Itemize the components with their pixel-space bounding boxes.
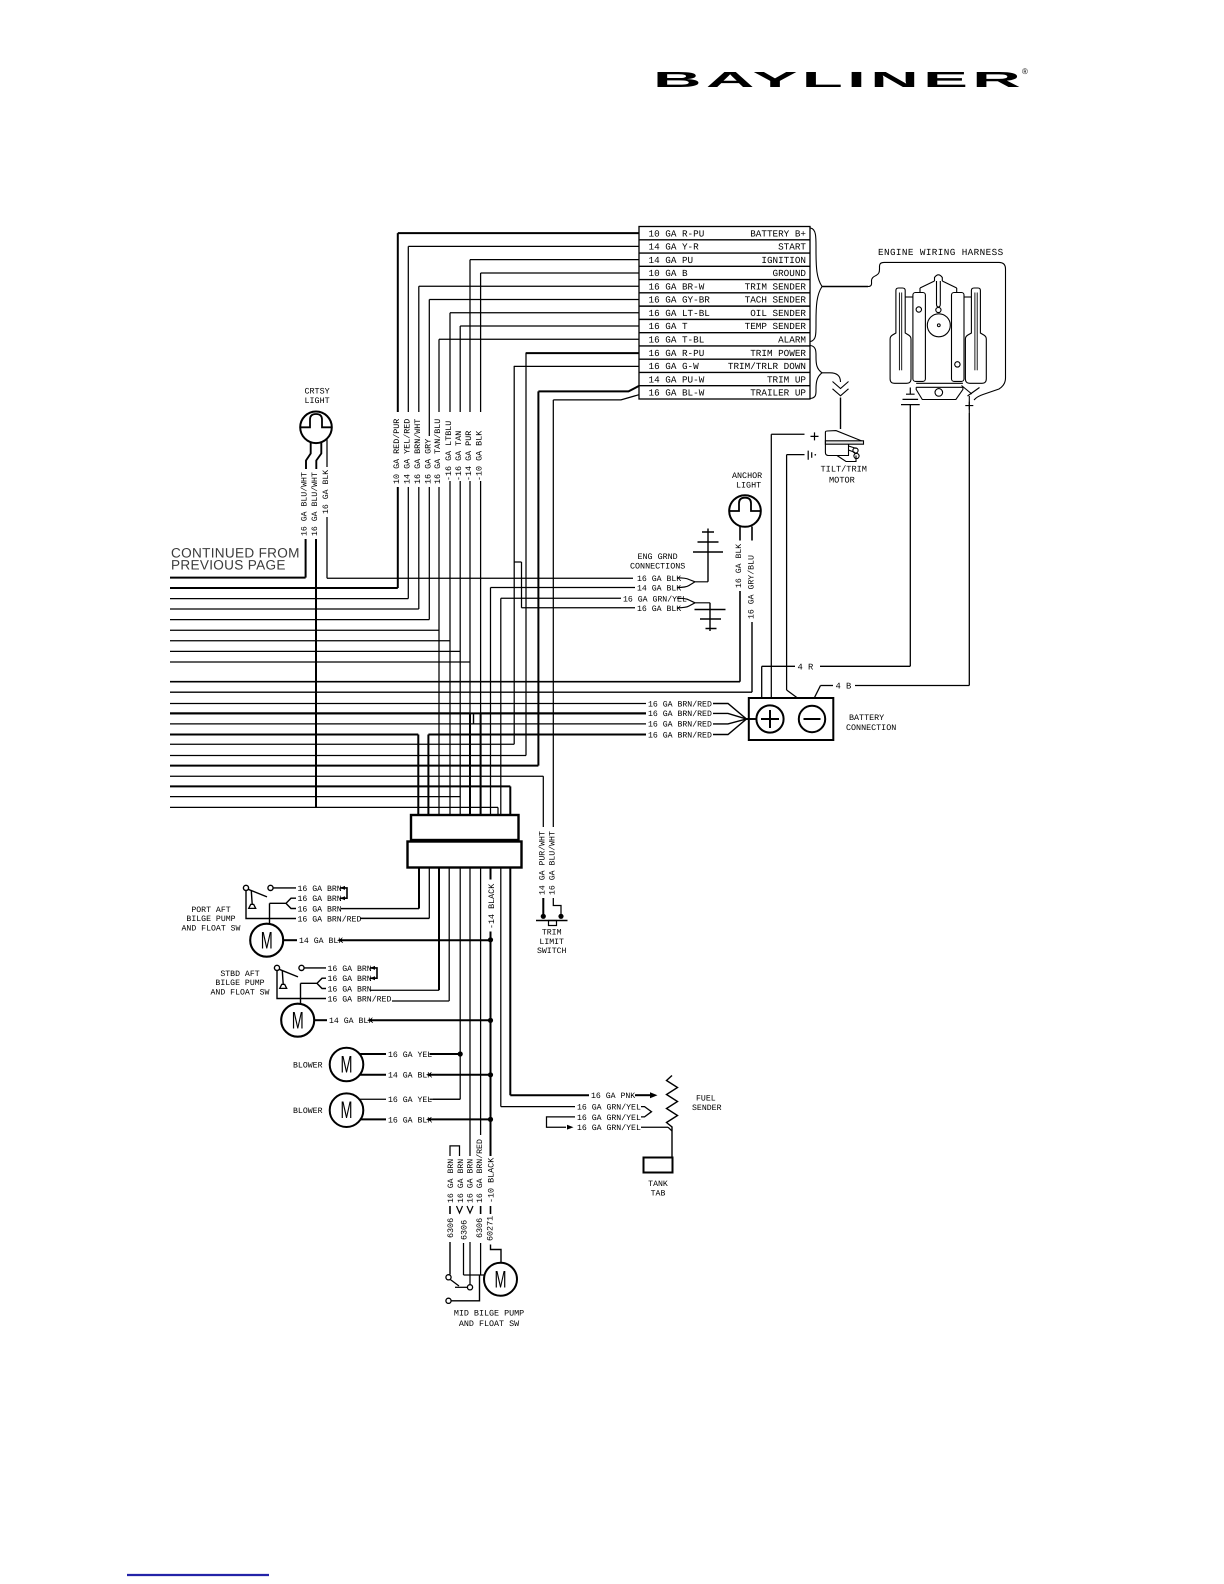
footer blue rule <box>127 1574 269 1576</box>
wire mid brn/red <box>480 1243 482 1275</box>
wire mid float mid terminal <box>469 1242 471 1285</box>
wire mid motor feed <box>463 1243 465 1275</box>
wire 16 GA TAN (table col x=460.2) <box>460 325 639 327</box>
wire blower2 16 GA BLK <box>360 1118 386 1120</box>
bus wire trim power (row10) <box>170 755 526 757</box>
wire 14 GA YEL/RED (table col x=408.3) <box>408 245 639 247</box>
arrowheads port rows 1-2 <box>340 886 345 900</box>
svg-text:LIGHT: LIGHT <box>305 396 330 406</box>
svg-text:16 GA GRN/YEL: 16 GA GRN/YEL <box>577 1124 641 1133</box>
svg-text:FUEL: FUEL <box>696 1095 716 1104</box>
wire engine plus to 4B <box>968 413 970 686</box>
svg-text:14 GA PU: 14 GA PU <box>649 255 694 266</box>
svg-text:16 GA BRN: 16 GA BRN <box>457 1159 466 1203</box>
svg-text:TANK: TANK <box>648 1180 668 1189</box>
svg-text:M: M <box>341 1097 353 1124</box>
stbd aft float switch and motor <box>274 965 279 970</box>
wire tilt/trim minus to battery minus <box>787 454 805 456</box>
svg-text:14 GA BLK: 14 GA BLK <box>637 585 681 594</box>
wire crtsy leg B to bus <box>315 539 317 807</box>
svg-text:16 GA T: 16 GA T <box>649 321 688 332</box>
engine harness entry funnel <box>868 269 880 287</box>
wire 14 GA PUR (table col x=470.0) <box>470 259 639 261</box>
svg-text:MOTOR: MOTOR <box>829 476 855 486</box>
svg-text:16 GA BRN: 16 GA BRN <box>328 985 372 994</box>
svg-text:60271: 60271 <box>485 1216 495 1241</box>
wire blower1 14 GA BLK <box>360 1074 386 1076</box>
svg-text:-16 GA TAN: -16 GA TAN <box>454 431 464 481</box>
trim limit switch bar <box>536 920 568 922</box>
ground symbol 2 (tip down) <box>695 603 726 631</box>
svg-text:16 GA BRN: 16 GA BRN <box>298 895 342 904</box>
svg-text:14 GA Y-R: 14 GA Y-R <box>649 242 700 253</box>
svg-text:ALARM: ALARM <box>778 334 806 345</box>
wire 16 GA BL-W trailer up (row13) <box>553 395 639 400</box>
stub wire x473.5 <box>473 714 475 724</box>
svg-text:16 GA BRN/RED: 16 GA BRN/RED <box>648 700 712 709</box>
bus wire trim/trlr down (row11) <box>170 743 514 745</box>
bus wire blower yel <box>170 796 460 798</box>
wire row C to resistor <box>641 1126 668 1128</box>
wire tilt/trim plus to battery plus <box>771 433 804 435</box>
inline connector lower half <box>408 842 522 868</box>
tilt/trim plus terminal <box>811 432 819 440</box>
wire engine ground to 4R <box>909 405 911 667</box>
bracket mid pump feed split <box>450 1146 460 1156</box>
ground symbol 1 (tip up) <box>693 529 723 582</box>
svg-text:TRIM UP: TRIM UP <box>767 374 806 385</box>
svg-text:16 GA BRN: 16 GA BRN <box>328 965 372 974</box>
wire stbd pump brn (x439) <box>438 868 440 991</box>
svg-text:M: M <box>495 1266 507 1293</box>
svg-text:16 GA BRN/RED: 16 GA BRN/RED <box>298 915 362 924</box>
engine Y wires to + terminal <box>962 386 980 414</box>
wire mid pump brn (x470) <box>469 868 471 1157</box>
svg-text:IGNITION: IGNITION <box>761 255 806 266</box>
port aft float switch and motor <box>243 885 248 890</box>
svg-text:16 GA BLU/WHT: 16 GA BLU/WHT <box>301 472 310 536</box>
svg-text:16 GA LT-BL: 16 GA LT-BL <box>649 308 710 319</box>
wire stbd pump brn/red (x449) <box>448 868 450 1002</box>
svg-text:16 GA BLK: 16 GA BLK <box>388 1116 432 1125</box>
svg-text:TRIM: TRIM <box>542 929 562 938</box>
svg-text:16 GA GY-BR: 16 GA GY-BR <box>649 295 711 306</box>
mid bilge motor <box>484 1263 517 1296</box>
svg-text:6306: 6306 <box>460 1220 470 1240</box>
wire mid float top terminal <box>449 1242 451 1275</box>
blower motor 2 <box>330 1093 364 1127</box>
wire 16 GA GRN/YEL row <box>501 597 621 599</box>
wire trim limit left lead <box>542 898 544 914</box>
svg-text:16 GA BR-W: 16 GA BR-W <box>649 281 705 292</box>
svg-text:16 GA BRN: 16 GA BRN <box>328 975 372 984</box>
svg-text:®: ® <box>1022 67 1028 76</box>
wire port row4 to connector <box>360 918 429 920</box>
wire port motor 14 GA BLK <box>283 939 297 941</box>
wire 16 GA R-PU trim power (row10) <box>526 352 639 354</box>
wire port pump brn (x419) <box>418 868 420 909</box>
svg-text:16 GA BRN/RED: 16 GA BRN/RED <box>648 721 712 730</box>
svg-text:14 GA YEL/RED: 14 GA YEL/RED <box>402 419 412 484</box>
svg-text:14 GA BLK: 14 GA BLK <box>329 1017 373 1026</box>
wire crtsy legs and fork <box>306 443 311 470</box>
svg-text:16 GA BRN: 16 GA BRN <box>298 905 342 914</box>
svg-text:6306: 6306 <box>446 1218 456 1238</box>
svg-text:16 GA BRN/WHT: 16 GA BRN/WHT <box>413 419 423 484</box>
svg-text:TAB: TAB <box>651 1189 666 1198</box>
svg-text:16 GA BLK: 16 GA BLK <box>735 544 744 588</box>
hook merge rows 1-2 to ground 1 <box>677 578 708 588</box>
engine + terminal <box>965 402 973 410</box>
svg-text:16 GA GRY/BLU: 16 GA GRY/BLU <box>747 555 756 619</box>
hook merge rows 3-4 to ground 2 <box>677 598 710 608</box>
wire 14 GA BLK row <box>491 587 636 589</box>
merge rows A-B <box>641 1107 652 1117</box>
wire blower2 16 GA YEL <box>360 1098 386 1100</box>
svg-text:16 GA GRN/YEL: 16 GA GRN/YEL <box>577 1104 641 1113</box>
svg-text:START: START <box>778 242 806 253</box>
svg-text:16 GA TAN/BLU: 16 GA TAN/BLU <box>433 419 443 484</box>
svg-text:AND FLOAT SW: AND FLOAT SW <box>182 924 241 933</box>
bracket port rows 1-2 <box>340 888 347 898</box>
svg-text:AND FLOAT SW: AND FLOAT SW <box>211 988 270 997</box>
bus wire y735 left segment <box>170 734 418 736</box>
junction dots on black bus <box>488 937 493 942</box>
bus wire brn/red row2 left <box>170 712 470 714</box>
svg-text:16 GA BLK: 16 GA BLK <box>322 470 331 514</box>
wire 16 GA G-W trim/trlr down (row11) <box>514 365 639 367</box>
svg-text:STBD AFT: STBD AFT <box>220 970 259 979</box>
bus wire brn/red row2 right <box>481 712 646 714</box>
wire grn/yel feed (x501) <box>500 868 502 1107</box>
wire trim limit pur/wht down <box>542 776 544 827</box>
tilt/trim minus terminal (battery symbol) <box>808 451 812 460</box>
wire arrow to tilt/trim motor <box>840 398 842 430</box>
wire 16 GA BRN/WHT (table col x=418.8) <box>419 285 639 287</box>
svg-text:BAYLINER: BAYLINER <box>653 67 1025 92</box>
svg-text:BATTERY B+: BATTERY B+ <box>750 228 806 239</box>
svg-text:16 GA BL-W: 16 GA BL-W <box>649 388 705 399</box>
svg-text:BLOWER: BLOWER <box>293 1061 323 1070</box>
svg-text:16 GA R-PU: 16 GA R-PU <box>649 348 705 359</box>
svg-text:16 GA GRN/YEL: 16 GA GRN/YEL <box>577 1114 641 1123</box>
battery minus terminal <box>799 706 825 732</box>
svg-text:GROUND: GROUND <box>773 268 807 279</box>
svg-text:16 GA BRN: 16 GA BRN <box>298 885 342 894</box>
Bayliner logo <box>653 67 1028 92</box>
arrowheads stbd rows 1-2 <box>370 966 375 980</box>
svg-text:16 GA G-W: 16 GA G-W <box>649 361 700 372</box>
svg-text:16 GA GRN/YEL: 16 GA GRN/YEL <box>623 596 687 605</box>
bracket stbd rows 1-2 <box>370 968 377 978</box>
fuel sender resistor zigzag <box>667 1076 678 1132</box>
wire resistor to tank tab <box>671 1131 673 1158</box>
wire anchor legs <box>739 527 741 541</box>
mid float blade <box>450 1280 459 1287</box>
svg-text:OIL SENDER: OIL SENDER <box>750 308 806 319</box>
svg-text:TRAILER UP: TRAILER UP <box>750 388 806 399</box>
tank tab box <box>644 1158 673 1173</box>
bus wire crtsy leg B / connector <box>170 806 498 808</box>
bus wire trim up (row12) <box>170 765 538 767</box>
svg-text:TEMP SENDER: TEMP SENDER <box>745 321 807 332</box>
svg-text:16 GA BLU/WHT: 16 GA BLU/WHT <box>548 831 557 895</box>
wire 16 GA TAN/BLU (table col x=439.0) <box>439 338 639 340</box>
svg-text:10 GA RED/PUR: 10 GA RED/PUR <box>392 419 402 484</box>
wire 16 GA GRY (table col x=429.3) <box>429 298 639 300</box>
splice ticks <box>449 1206 451 1214</box>
svg-text:16 GA YEL: 16 GA YEL <box>388 1051 432 1060</box>
arrow row C <box>567 1125 574 1130</box>
svg-text:TRIM/TRLR DOWN: TRIM/TRLR DOWN <box>728 361 806 372</box>
wire fuel pnk feed (x510) <box>509 868 511 1096</box>
trim limit switch contacts <box>541 914 546 919</box>
wire 4B to battery minus <box>855 685 969 687</box>
wire 10 GA RED/PUR (table col x=397.8) <box>398 232 639 234</box>
engine block drawing <box>935 275 943 281</box>
svg-text:CRTSY: CRTSY <box>305 387 330 397</box>
wire port row3 to connector <box>341 908 419 910</box>
svg-text:M: M <box>292 1007 304 1034</box>
svg-text:16 GA T-BL: 16 GA T-BL <box>649 334 705 345</box>
svg-text:AND FLOAT SW: AND FLOAT SW <box>459 1319 520 1329</box>
wire 16 GA LTBLU (table col x=450.0) <box>450 312 639 314</box>
wire 4R to battery plus <box>762 665 795 667</box>
wire anchor GRY/BLU to bus <box>751 622 753 692</box>
svg-text:10 GA R-PU: 10 GA R-PU <box>649 228 705 239</box>
tilt/trim motor drawing <box>825 431 863 462</box>
svg-text:-10 BLACK: -10 BLACK <box>487 1157 497 1203</box>
svg-text:BILGE PUMP: BILGE PUMP <box>215 979 264 988</box>
svg-text:M: M <box>261 927 273 954</box>
wire blower1 16 GA YEL <box>360 1053 386 1055</box>
bus wire trim limit pur/wht <box>170 775 543 777</box>
svg-text:-16 GA LTBLU: -16 GA LTBLU <box>444 421 454 481</box>
wire crtsy 16 GA BLK <box>326 440 328 468</box>
svg-text:TRIM POWER: TRIM POWER <box>750 348 806 359</box>
wire blower feed 16 GA YEL (x460) <box>459 868 461 1100</box>
svg-text:-14 BLACK: -14 BLACK <box>487 883 497 929</box>
wires 16 GA BRN/RED to battery plus (4x) <box>170 703 646 705</box>
wire crtsy leg A to bus <box>305 539 307 578</box>
wire brace to trim arrow <box>822 373 841 382</box>
svg-text:16 GA BLK: 16 GA BLK <box>637 575 681 584</box>
svg-text:14 GA PU-W: 14 GA PU-W <box>649 374 705 385</box>
svg-text:LIMIT: LIMIT <box>539 938 564 947</box>
svg-text:16 GA BLK: 16 GA BLK <box>637 605 681 614</box>
junction dot blower1 yel <box>458 1051 463 1056</box>
svg-text:6306: 6306 <box>475 1218 485 1238</box>
svg-text:16 GA BRN/RED: 16 GA BRN/RED <box>648 731 712 740</box>
svg-text:BILGE PUMP: BILGE PUMP <box>186 915 235 924</box>
double chevron arrow down <box>833 382 849 396</box>
wire stbd motor 14 GA BLK <box>314 1019 327 1021</box>
svg-text:14 GA BLK: 14 GA BLK <box>388 1072 432 1081</box>
inline connector upper half <box>411 815 519 840</box>
brace lower (rows 10-13 bundle) <box>811 346 823 399</box>
wire 10 GA BLK (table col x=480.6) <box>481 272 639 274</box>
blower motor 1 <box>330 1048 364 1082</box>
svg-text:16 GA BRN/RED: 16 GA BRN/RED <box>476 1139 485 1203</box>
bus wire fuel pnk <box>170 785 510 787</box>
svg-text:4 R: 4 R <box>798 662 815 672</box>
engine harness boundary <box>880 262 1006 400</box>
wire ground bus 14/10 BLACK (x490) <box>490 868 492 880</box>
wire 16 GA BLK row4 tap <box>514 561 521 563</box>
wire 10 black jog to motor top <box>491 1245 502 1263</box>
svg-text:ANCHOR: ANCHOR <box>732 471 762 481</box>
svg-text:16 GA GRY: 16 GA GRY <box>423 439 433 484</box>
arrow pnk to fuel sender <box>635 1094 650 1096</box>
svg-text:16 GA BLU/WHT: 16 GA BLU/WHT <box>311 472 320 536</box>
courtesy light lamp symbol <box>300 412 332 444</box>
svg-text:16 GA PNK: 16 GA PNK <box>591 1092 635 1101</box>
wire mid float bottom terminal <box>446 1298 451 1303</box>
svg-text:M: M <box>341 1052 353 1079</box>
svg-text:PREVIOUS PAGE: PREVIOUS PAGE <box>171 558 286 573</box>
wire port pump brn/red (x429) <box>428 868 430 919</box>
wire 14 GA PU-W trim up (row12) <box>538 386 639 392</box>
svg-text:BATTERY: BATTERY <box>849 713 884 723</box>
svg-text:16 GA BRN/RED: 16 GA BRN/RED <box>328 995 392 1004</box>
svg-text:BLOWER: BLOWER <box>293 1107 323 1116</box>
svg-text:16 GA BRN: 16 GA BRN <box>447 1159 456 1203</box>
svg-text:16 GA YEL: 16 GA YEL <box>388 1096 432 1105</box>
wires bus to connector top <box>417 735 419 816</box>
wire anchor BLK to bus <box>739 591 741 682</box>
svg-text:16 GA BRN/RED: 16 GA BRN/RED <box>648 710 712 719</box>
svg-text:16 GA BRN: 16 GA BRN <box>467 1159 476 1203</box>
brace upper (rows 1-9 bundle) <box>811 228 823 342</box>
wire brace to engine harness <box>822 286 868 288</box>
bus wire crtsy leg A <box>170 577 306 579</box>
wire mid pump brn/red (x480) <box>480 868 482 1136</box>
svg-text:14 GA BLK: 14 GA BLK <box>299 937 343 946</box>
battery connection box <box>749 698 834 740</box>
svg-text:4 B: 4 B <box>836 682 852 692</box>
wire crtsy BLK to eng grnd <box>326 517 328 578</box>
svg-text:MID BILGE PUMP: MID BILGE PUMP <box>454 1309 524 1319</box>
svg-text:SENDER: SENDER <box>692 1104 722 1113</box>
svg-text:PORT AFT: PORT AFT <box>191 906 230 915</box>
svg-text:TRIM SENDER: TRIM SENDER <box>745 281 807 292</box>
wire trim limit right lead <box>553 898 561 914</box>
engine ground symbol <box>901 388 920 405</box>
harness connector table (13 wire rows) <box>639 227 810 400</box>
svg-text:-10 GA BLK: -10 GA BLK <box>475 430 485 481</box>
svg-text:14 GA PUR/WHT: 14 GA PUR/WHT <box>538 831 547 895</box>
svg-text:SWITCH: SWITCH <box>537 947 567 956</box>
svg-text:TILT/TRIM: TILT/TRIM <box>821 465 867 475</box>
svg-text:-14 GA PUR: -14 GA PUR <box>464 431 474 481</box>
svg-text:ENGINE WIRING HARNESS: ENGINE WIRING HARNESS <box>878 247 1004 258</box>
bus wires to table columns (8x) <box>170 587 398 589</box>
svg-text:10 GA B: 10 GA B <box>649 268 688 279</box>
anchor light lamp symbol <box>729 495 761 527</box>
svg-text:CONNECTION: CONNECTION <box>846 723 896 733</box>
svg-text:LIGHT: LIGHT <box>736 481 761 491</box>
svg-text:CONNECTIONS: CONNECTIONS <box>630 562 685 572</box>
svg-text:TACH SENDER: TACH SENDER <box>745 295 807 306</box>
trim limit switch actuator <box>549 921 557 926</box>
bracket rows B-C <box>547 1117 576 1127</box>
svg-text:ENG GRND: ENG GRND <box>638 552 678 562</box>
battery plus terminal <box>756 705 783 732</box>
